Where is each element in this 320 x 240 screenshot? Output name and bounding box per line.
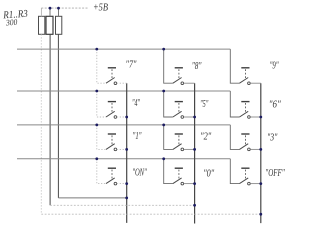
- label "4": [132, 97, 140, 109]
- node: SB 0 junction on column line: [193, 182, 196, 185]
- label +5V: [93, 2, 108, 13]
- node: SB ON junction on row line: [95, 157, 98, 160]
- push button SB 7: actuator stub from row line: [97, 49, 106, 83]
- push button SB ON: plunger (dashed): [111, 170, 113, 179]
- push button SB 5: plunger (dashed): [178, 103, 180, 112]
- resistor R2: [46, 8, 53, 34]
- push button SB 9: actuator stub from row line: [230, 49, 239, 83]
- wire: SB 1 contact to column line: [117, 148, 127, 150]
- push button SB 3: fixed contact: [248, 148, 251, 151]
- svg-text:"0": "0": [203, 167, 214, 179]
- wire: bottom bus 2 (R2 to column 2): [50, 204, 195, 206]
- svg-text:+5В: +5В: [93, 2, 108, 13]
- wire: row line 3: [17, 124, 230, 126]
- push button SB 8: plunger (dashed): [178, 69, 180, 78]
- push button SB 3: plunger (dashed): [245, 135, 247, 144]
- svg-text:"ON": "ON": [132, 167, 147, 179]
- label "9": [270, 60, 279, 72]
- push button SB 0: fixed contact: [181, 182, 184, 185]
- svg-text:"9": "9": [270, 60, 279, 72]
- label "0": [203, 167, 214, 179]
- svg-text:"8": "8": [192, 60, 202, 72]
- push button SB OFF: actuator stub from row line: [230, 159, 239, 184]
- push button SB ON: lever contact: [106, 178, 115, 184]
- svg-text:"1": "1": [133, 130, 142, 142]
- label "3": [267, 131, 278, 143]
- label "1": [133, 130, 142, 142]
- push button SB 4: cap: [108, 101, 116, 103]
- push button SB 2: cap: [175, 133, 183, 135]
- node: SB 6 junction on column line: [259, 116, 262, 119]
- label 300 (resistor value): [5, 17, 18, 28]
- push button SB 0: plunger (dashed): [178, 170, 180, 179]
- node: SB 2 junction on column line: [193, 148, 196, 151]
- push button SB 7: lever contact: [106, 78, 115, 84]
- push button SB 0: actuator stub from row line: [164, 159, 173, 184]
- push button SB 3: actuator stub from row line: [230, 125, 239, 149]
- wire: row line 4: [17, 158, 230, 160]
- label "6": [269, 99, 281, 111]
- push button SB ON: actuator stub from row line: [97, 159, 106, 184]
- push button SB 6: cap: [241, 101, 249, 103]
- push button SB 2: lever contact: [173, 144, 182, 150]
- label "OFF": [265, 167, 285, 179]
- push button SB 1: actuator stub from row line: [97, 125, 106, 149]
- wire: +5V rail: [41, 7, 88, 9]
- push button SB 9: plunger (dashed): [245, 69, 247, 78]
- push button SB 0: lever contact: [173, 178, 182, 184]
- push button SB 2: actuator stub from row line: [164, 125, 173, 149]
- svg-text:"5": "5": [200, 98, 208, 110]
- push button SB OFF: cap: [241, 167, 249, 169]
- push button SB 8: actuator stub from row line: [164, 49, 173, 83]
- node: SB ON junction on column line: [125, 182, 128, 185]
- push button SB 5: cap: [175, 101, 183, 103]
- node: R3 top junction on +5V rail: [57, 7, 60, 10]
- node: SB 1 junction on column line: [125, 148, 128, 151]
- push button SB 3: lever contact: [240, 144, 249, 150]
- push button SB 4: actuator stub from row line: [97, 91, 106, 117]
- wire: SB 8 contact to column line: [184, 82, 195, 84]
- wire: SB OFF contact to column line: [250, 183, 260, 185]
- svg-text:"4": "4": [132, 97, 140, 109]
- wire: R3 bottom lead (to bottom bus 1): [57, 34, 59, 198]
- push button SB 7: cap: [108, 67, 116, 69]
- label "7": [126, 58, 137, 70]
- wire: SB 3 contact to column line: [250, 148, 260, 150]
- push button SB OFF: lever contact: [240, 178, 249, 184]
- svg-text:"2": "2": [200, 131, 211, 143]
- push button SB 2: plunger (dashed): [178, 135, 180, 144]
- push button SB 2: fixed contact: [181, 148, 184, 151]
- wire: SB 2 contact to column line: [184, 148, 195, 150]
- push button SB 1: cap: [108, 133, 116, 135]
- push button SB 9: lever contact: [240, 78, 249, 84]
- wire: SB 5 contact to column line: [184, 116, 195, 118]
- push button SB ON: cap: [108, 167, 116, 169]
- push button SB 4: fixed contact: [114, 116, 117, 119]
- wire: SB 6 contact to column line: [250, 116, 260, 118]
- wire: SB 7 contact to column line: [117, 82, 127, 84]
- column line 1: [126, 83, 128, 223]
- node: SB 0 junction on row line: [162, 157, 165, 160]
- push button SB 7: plunger (dashed): [111, 69, 113, 78]
- column line 2: [194, 83, 196, 223]
- wire: SB ON contact to column line: [117, 183, 127, 185]
- push button SB 5: fixed contact: [181, 116, 184, 119]
- wire: bottom bus 1 (R3 to column 1): [58, 197, 126, 199]
- push button SB 9: cap: [241, 67, 249, 69]
- label "2": [200, 131, 211, 143]
- svg-text:300: 300: [5, 17, 18, 28]
- resistor R1: [39, 8, 45, 34]
- wire: R1 bottom lead (light dotted, to bottom bus 3): [40, 34, 42, 214]
- push button SB 4: lever contact: [106, 111, 115, 117]
- label "8": [192, 60, 202, 72]
- push button SB 8: lever contact: [173, 78, 182, 84]
- node: bus 3 junction on column 3: [259, 213, 262, 216]
- svg-text:"3": "3": [267, 131, 278, 143]
- push button SB 6: fixed contact: [248, 116, 251, 119]
- push button SB OFF: fixed contact: [248, 182, 251, 185]
- push button SB 1: lever contact: [106, 144, 115, 150]
- wire: bottom bus 3 (R1 to column 3): [41, 213, 260, 215]
- label "ON": [132, 167, 147, 179]
- wire: SB 0 contact to column line: [184, 183, 195, 185]
- node: SB 5 junction on column line: [193, 116, 196, 119]
- node: SB 3 junction on column line: [259, 148, 262, 151]
- push button SB 6: plunger (dashed): [245, 103, 247, 112]
- svg-text:"6": "6": [269, 99, 281, 111]
- push button SB 4: plunger (dashed): [111, 103, 113, 112]
- svg-text:"OFF": "OFF": [265, 167, 285, 179]
- node: SB 4 junction on row line: [95, 90, 98, 93]
- push button SB ON: fixed contact: [114, 182, 117, 185]
- column line 3: [260, 83, 262, 223]
- push button SB 1: fixed contact: [114, 148, 117, 151]
- svg-text:"7": "7": [126, 58, 137, 70]
- node: SB 5 junction on row line: [162, 90, 165, 93]
- push button SB OFF: plunger (dashed): [245, 170, 247, 179]
- wire: R2 bottom lead (to bottom bus 2): [49, 34, 51, 205]
- resistor R3: [56, 8, 62, 34]
- node: R2 top junction on +5V rail: [49, 7, 52, 10]
- push button SB 3: cap: [241, 133, 249, 135]
- push button SB 6: lever contact: [240, 111, 249, 117]
- wire: SB 4 contact to column line: [117, 116, 127, 118]
- wire: row line 2: [17, 90, 230, 92]
- push button SB 1: plunger (dashed): [111, 135, 113, 144]
- push button SB 8: cap: [175, 67, 183, 69]
- push button SB 5: actuator stub from row line: [164, 91, 173, 117]
- node: SB 1 junction on row line: [95, 124, 98, 127]
- node: SB 8 junction on row line: [162, 48, 165, 51]
- push button SB 7: fixed contact: [114, 82, 117, 85]
- node: SB OFF junction on column line: [259, 182, 262, 185]
- push button SB 6: actuator stub from row line: [230, 91, 239, 117]
- node: bus 2 junction on column 2: [193, 204, 196, 207]
- push button SB 9: fixed contact: [248, 82, 251, 85]
- node: SB 7 junction on row line: [95, 48, 98, 51]
- label R1..R3: [2, 9, 28, 22]
- push button SB 8: fixed contact: [181, 82, 184, 85]
- node: SB 2 junction on row line: [162, 124, 165, 127]
- wire: row line 1: [17, 48, 230, 50]
- push button SB 0: cap: [175, 167, 183, 169]
- label "5": [200, 98, 208, 110]
- wire: SB 9 contact to column line: [250, 82, 260, 84]
- node: bus 1 junction on column 1: [125, 197, 128, 200]
- node: SB 4 junction on column line: [125, 116, 128, 119]
- push button SB 5: lever contact: [173, 111, 182, 117]
